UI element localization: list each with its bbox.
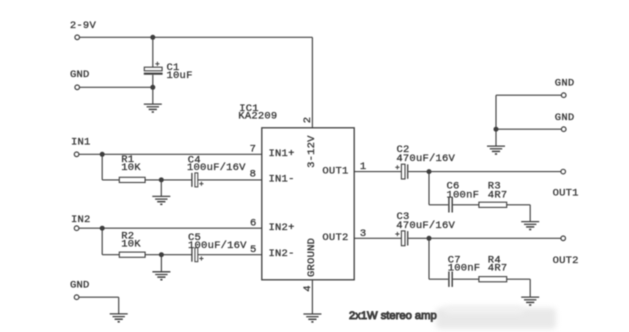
svg-text:OUT2: OUT2	[553, 255, 579, 267]
svg-text:470uF/16V: 470uF/16V	[396, 153, 455, 165]
svg-text:2x1W stereo amp: 2x1W stereo amp	[349, 310, 437, 322]
svg-text:10K: 10K	[121, 239, 141, 251]
svg-text:IN2: IN2	[71, 214, 91, 226]
svg-text:100nF: 100nF	[447, 189, 480, 201]
svg-text:GND: GND	[555, 77, 575, 89]
svg-text:GND: GND	[70, 280, 90, 292]
svg-text:KA2209: KA2209	[238, 111, 277, 123]
svg-text:3: 3	[360, 228, 367, 240]
svg-text:100nF: 100nF	[448, 262, 481, 274]
svg-text:OUT2: OUT2	[322, 232, 348, 244]
svg-text:GND: GND	[555, 112, 575, 124]
svg-text:IN1+: IN1+	[269, 148, 295, 160]
svg-text:2-9V: 2-9V	[70, 20, 97, 32]
svg-text:OUT1: OUT1	[553, 188, 579, 200]
svg-text:IN2-: IN2-	[269, 248, 295, 260]
svg-text:100uF/16V: 100uF/16V	[187, 162, 246, 174]
svg-text:IN1-: IN1-	[269, 174, 295, 186]
svg-text:4R7: 4R7	[488, 262, 508, 274]
svg-text:10uF: 10uF	[167, 70, 193, 82]
svg-text:1: 1	[360, 161, 367, 173]
svg-text:8: 8	[250, 168, 257, 180]
svg-text:IN2+: IN2+	[269, 222, 295, 234]
svg-text:2: 2	[302, 117, 314, 124]
svg-text:6: 6	[250, 218, 257, 230]
svg-text:GROUND: GROUND	[306, 238, 318, 277]
svg-text:5: 5	[250, 244, 257, 256]
svg-text:3-12V: 3-12V	[306, 135, 318, 168]
svg-text:100uF/16V: 100uF/16V	[188, 240, 247, 252]
svg-text:GND: GND	[70, 69, 90, 81]
svg-text:10K: 10K	[121, 162, 141, 174]
svg-text:4: 4	[302, 285, 314, 292]
svg-text:7: 7	[250, 144, 257, 156]
svg-text:OUT1: OUT1	[322, 165, 348, 177]
svg-text:4R7: 4R7	[488, 189, 508, 201]
svg-text:470uF/16V: 470uF/16V	[396, 220, 455, 232]
svg-text:IN1: IN1	[71, 137, 91, 149]
